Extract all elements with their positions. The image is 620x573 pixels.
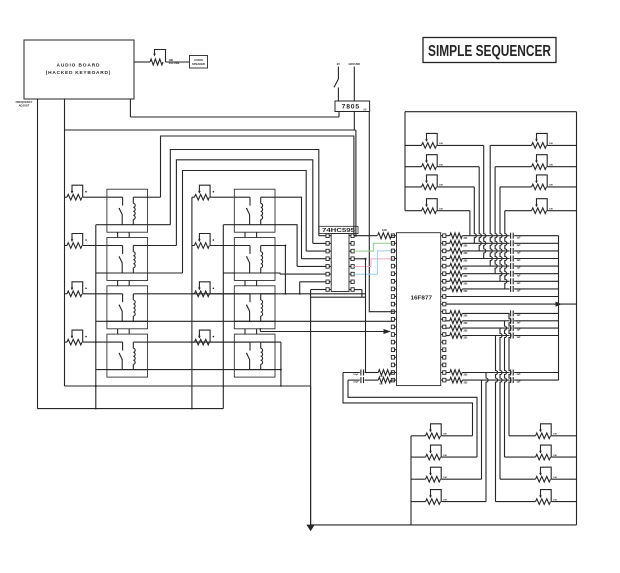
wire row3 top long line to crystal area [148, 293, 366, 295]
left grid relay K3 contact [119, 294, 123, 322]
wire audio board to 7805 (y=117) [130, 99, 339, 117]
svg-text:ADJUST: ADJUST [19, 103, 30, 107]
left grid relay K3 coil [133, 294, 135, 322]
resistor 330 low row 4 [446, 333, 468, 340]
wire row2 top left-coil to loop3 [148, 245, 177, 247]
wire out row 1 [462, 235, 558, 237]
left grid relay K1 box [107, 189, 148, 232]
svg-text:AUDIO BOARD: AUDIO BOARD [57, 62, 101, 68]
resistor 330 out row 5 [446, 263, 468, 270]
capacitor low row 1 [511, 310, 522, 317]
wire row1 bottom mid [148, 224, 171, 226]
wire blue clock [354, 251, 394, 274]
wire row1 bottom right-grid contact [223, 224, 234, 226]
left grid relay K2 contact [119, 246, 123, 274]
crystal row1 [343, 370, 394, 379]
resistor 330 out row 8 [446, 286, 468, 293]
svg-text:10K: 10K [443, 477, 447, 479]
svg-text:1uF: 1uF [517, 374, 522, 376]
left grid potentiometer row 4 [65, 330, 107, 345]
crystal loop inner [348, 380, 477, 457]
resistor 330 low row 1 [446, 311, 468, 318]
svg-text:10K: 10K [553, 455, 557, 457]
wire 7805 pin2 down [353, 112, 355, 131]
potentiometer volume 10K [150, 50, 166, 66]
wire low row 3 [462, 327, 558, 329]
capacitor bottom row 1 [511, 370, 522, 377]
wire row2 bottom left to contact rail [96, 272, 107, 274]
wire top box column 8 down to out row 8 [505, 211, 507, 289]
capacitor bottom row 2 [511, 377, 522, 384]
right grid relay K1 contact [246, 197, 250, 225]
svg-text:10K: 10K [443, 499, 447, 501]
right grid relay K1 coil [261, 197, 263, 225]
wire right contact rail x=223.3 [222, 225, 224, 409]
right grid potentiometer row 4 [192, 330, 234, 345]
left grid relay K2 wires [106, 246, 148, 274]
left grid relay K1 wires [106, 197, 148, 225]
capacitor low row 4 [511, 333, 522, 340]
wire 877 row9 [446, 296, 559, 298]
resistor 330 out row 2 [446, 241, 468, 248]
IC 16F877 body [397, 233, 441, 386]
svg-text:10K: 10K [553, 477, 557, 479]
resistor 330 low row 2 [446, 318, 468, 325]
IC 16F877 left pins [391, 234, 396, 382]
audio board box [24, 40, 134, 99]
label 10K [382, 228, 387, 232]
resistor 10K pull-up [378, 233, 392, 239]
svg-text:10K: 10K [549, 209, 553, 211]
top-left potentiometer row 4 [405, 199, 470, 214]
svg-text:22pF: 22pF [353, 382, 359, 384]
right grid relay K2 wires [234, 246, 276, 274]
top-left potentiometer row 2 [405, 155, 479, 170]
resistor 330 out row 1 [446, 233, 468, 240]
wire low row 2 [462, 320, 558, 322]
wire 595 pin8R [354, 290, 362, 298]
wire row1 bottom left to contact rail [96, 224, 107, 226]
capacitor out row 4 [511, 256, 522, 263]
wire low row1 down to bottom-right pot1 [509, 313, 511, 435]
title box SIMPLE SEQUENCER [423, 38, 556, 63]
wire pot to speaker box [166, 61, 190, 63]
top-right potentiometer row 2 [495, 155, 576, 170]
bottom-right potentiometer row 4 [496, 490, 577, 505]
IC 74HC595 label box [319, 226, 358, 234]
svg-text:10K: 10K [553, 434, 557, 436]
wire right grid pot rail x=191.9 [191, 197, 193, 408]
svg-text:1uF: 1uF [517, 245, 522, 247]
wires 74HC595 left pin stubs [280, 236, 326, 290]
right grid relay K2 contact [246, 246, 250, 274]
wire low row2 down to bottom-right pot2 [505, 321, 507, 457]
wire low row4 down to bottom-right pot4 [496, 336, 498, 502]
wire left contact rail x=95.8 [95, 225, 97, 409]
right rail x=576.5 [576, 112, 578, 525]
wire out row 3 [462, 250, 558, 252]
wire 595 pin4R [354, 258, 366, 260]
label 10K VOLUME [169, 58, 180, 65]
capacitor out row 5 [511, 263, 522, 270]
clock input arrow [260, 328, 392, 334]
IC 16F877 right pins [441, 234, 446, 382]
svg-text:10K: 10K [439, 143, 443, 145]
right grid relay K1 wires [234, 197, 276, 225]
wire 877 row10 to right rail [446, 302, 577, 307]
wire row2 bottom left-coil to loop4 [148, 272, 183, 274]
wire bottom row 2 [462, 379, 558, 381]
wire 595 GND pin to ground rail [310, 290, 312, 526]
audio speaker box [190, 56, 208, 69]
wire 7805 output right edge down [369, 112, 394, 312]
right grid relay K4 coil [261, 342, 263, 370]
wire row1 top right-coil to 595 pin4 [275, 197, 302, 259]
left grid relay chain links [118, 232, 130, 334]
right grid relay K2 box [234, 238, 275, 281]
svg-text:10K: 10K [439, 209, 443, 211]
resistor 330 bottom row 2 [446, 377, 468, 384]
svg-text:10K: 10K [549, 185, 553, 187]
svg-text:1uF: 1uF [517, 253, 522, 255]
right grid relay K4 box [234, 334, 275, 377]
right grid relay K2 coil [261, 246, 263, 274]
top-left potentiometer row 1 [405, 133, 484, 148]
right grid potentiometer row 2 [192, 234, 234, 249]
svg-text:1uF: 1uF [517, 283, 522, 285]
left grid relay K4 coil [133, 342, 135, 370]
bus y=408.6 [38, 408, 224, 410]
bottom-left potentiometer row 1 [411, 424, 473, 439]
wire resistor to 877 pin1 [392, 235, 394, 237]
label frequency adjust [16, 100, 33, 107]
wire top box column 4 down to out row 4 [484, 145, 486, 258]
capacitor out row 7 [511, 278, 522, 285]
svg-text:10K: 10K [549, 143, 553, 145]
svg-text:16F877: 16F877 [411, 296, 433, 302]
wire audio pin rail x=64.5 [64, 99, 66, 386]
top right box top edge [405, 111, 577, 113]
wire out row 6 [462, 273, 558, 275]
wire row1 top left-coil to loop1 [148, 196, 161, 198]
wire top box column 5 down to out row 5 [490, 145, 492, 266]
bus ground y=386 [65, 385, 311, 387]
right grid potentiometer row 1 [192, 185, 234, 200]
crystal loop outer [343, 373, 473, 436]
svg-text:1uF: 1uF [517, 237, 522, 239]
resistor 330 out row 6 [446, 271, 468, 278]
left grid relay K4 wires [106, 342, 148, 370]
svg-text:(HACKED KEYBOARD): (HACKED KEYBOARD) [46, 70, 111, 76]
wire 7805 pin1 down [338, 112, 340, 118]
regulator 7805 box [335, 101, 370, 112]
svg-text:AUDIO: AUDIO [194, 58, 203, 62]
bottom-left potentiometer row 3 [411, 467, 482, 482]
left grid relay K4 contact [119, 342, 123, 370]
left grid relay K3 box [107, 286, 148, 329]
top-left potentiometer row 3 [405, 175, 474, 190]
svg-text:9V: 9V [337, 62, 340, 66]
svg-text:1uF: 1uF [517, 382, 522, 384]
wire row2 bottom right-coil to 595 pin6 [275, 273, 280, 274]
wire out row 4 [462, 258, 558, 260]
wire 5V rail down right of 595 [355, 130, 357, 236]
svg-text:10K: 10K [382, 228, 387, 232]
left grid relay K2 coil [133, 246, 135, 274]
svg-text:7805: 7805 [342, 104, 360, 111]
left grid potentiometer row 2 [65, 234, 107, 249]
svg-text:5V: 5V [364, 108, 367, 111]
right grid relay K3 box [234, 286, 275, 329]
wire top box column 2 down to out row 2 [474, 187, 476, 243]
wire ground input [353, 67, 355, 102]
wire row1 bottom right-coil to 595 pin5 [275, 225, 297, 267]
wire loop 1 from 595 around top to left relay grid [161, 136, 354, 236]
wire low row 4 [462, 335, 558, 337]
capacitor out row 6 [511, 271, 522, 278]
left grid relay K4 box [107, 334, 148, 377]
bottom-left potentiometer row 4 [411, 490, 486, 505]
wire top box column 6 down to out row 6 [495, 167, 497, 274]
IC 16F877 label [411, 296, 433, 302]
svg-text:10K: 10K [443, 455, 447, 457]
wire top box column 1 down to out row 1 [469, 211, 471, 236]
wire loop 3 from 595 around top to left relay grid [176, 160, 312, 246]
wire top box column 3 down to out row 3 [479, 167, 481, 251]
svg-text:1uF: 1uF [517, 322, 522, 324]
top-right potentiometer row 1 [490, 133, 576, 148]
right grid relay K3 wires [234, 294, 276, 322]
wire row4 top to right rail [148, 341, 281, 343]
resistor 330 low row 3 [446, 325, 468, 332]
bottom-left potentiometer row 2 [411, 445, 477, 460]
svg-text:SPEAKER: SPEAKER [192, 62, 205, 66]
left grid potentiometer row 3 [65, 282, 107, 297]
wire out row 7 [462, 280, 558, 282]
wire out row 5 [462, 265, 558, 267]
top right box left rail [404, 112, 406, 211]
svg-text:1uF: 1uF [517, 291, 522, 293]
left grid potentiometer row 1 [65, 185, 107, 200]
IC 74HC595 right pins [349, 234, 354, 291]
wire low row 1 [462, 312, 558, 314]
IC 74HC595 body [331, 234, 349, 292]
svg-text:GROUND: GROUND [349, 62, 361, 66]
wire bottom row 1 [462, 372, 558, 374]
bottom right box left rail [410, 436, 412, 525]
crystal row2 [348, 377, 394, 386]
wire 9V input [337, 67, 339, 80]
label GROUND [349, 62, 361, 66]
svg-text:22pF: 22pF [353, 374, 359, 376]
svg-text:1uF: 1uF [517, 337, 522, 339]
capacitor out row 1 [511, 233, 522, 240]
svg-text:10K: 10K [549, 165, 553, 167]
wire audio board to volume pot [134, 61, 150, 63]
capacitor out row 3 [511, 248, 522, 255]
left grid relay K3 wires [106, 294, 148, 322]
wire bottom row1 down to bottom-left pot4 [486, 373, 488, 502]
bottom box bottom edge [311, 524, 577, 526]
top-right potentiometer row 3 [500, 175, 577, 190]
svg-text:1uF: 1uF [517, 315, 522, 317]
right grid relay chain links [245, 232, 257, 334]
svg-text:1uF: 1uF [517, 268, 522, 270]
svg-text:10K: 10K [553, 499, 557, 501]
svg-text:SIMPLE SEQUENCER: SIMPLE SEQUENCER [428, 43, 551, 60]
IC 74HC595 left pins [326, 234, 331, 291]
right grid relay K1 box [234, 189, 275, 232]
right grid relay K3 contact [246, 294, 250, 322]
svg-text:10K: 10K [439, 165, 443, 167]
wire out row 2 [462, 242, 558, 244]
capacitor low row 2 [511, 318, 522, 325]
wire 595 pin1R to resistor [354, 235, 377, 237]
capacitor out row 2 [511, 240, 522, 247]
bottom-right potentiometer row 1 [509, 424, 577, 439]
wire out row 8 [462, 288, 558, 290]
svg-text:1uF: 1uF [517, 330, 522, 332]
wire bottom row2 down to bottom-left pot3 [481, 380, 483, 479]
capacitor low row 3 [511, 325, 522, 332]
wire collector vertical x=558.5 [558, 236, 560, 380]
wire 595 aux net [311, 259, 366, 373]
wire 5V rail y=130 [65, 129, 356, 131]
ground symbol [306, 386, 314, 531]
left grid relay K1 contact [119, 197, 123, 225]
bottom-right potentiometer row 2 [505, 445, 577, 460]
resistor 330 out row 7 [446, 279, 468, 286]
left grid relay K2 box [107, 238, 148, 281]
resistor 330 out row 3 [446, 248, 468, 255]
resistor 330 out row 4 [446, 256, 468, 263]
svg-text:1uF: 1uF [517, 260, 522, 262]
wire frequency adjust rail x=37 [37, 99, 39, 409]
switch SW1 [334, 79, 339, 101]
resistor 330 bottom row 1 [446, 370, 468, 377]
right grid relay K4 contact [246, 342, 250, 370]
wire pink latch [354, 259, 394, 267]
right grid relay K3 coil [261, 294, 263, 322]
wire 595 pin7 to row3 top [299, 282, 301, 295]
wire right coil rail x=280.9 [280, 342, 282, 386]
wire top box column 7 down to out row 7 [500, 187, 502, 281]
wire row3 bottom long line to 16F877 [96, 320, 394, 322]
label 9V [337, 62, 340, 66]
wire loop 2 from 595 around top to left relay grid [170, 150, 318, 236]
top-right potentiometer row 4 [505, 199, 577, 214]
right grid relay K4 wires [234, 342, 276, 370]
label 5V [364, 108, 367, 111]
svg-text:10K: 10K [443, 434, 447, 436]
wire row2 top right-coil junction [275, 245, 286, 295]
svg-text:10K: 10K [439, 185, 443, 187]
left grid relay K1 coil [133, 197, 135, 225]
right grid potentiometer row 3 [192, 282, 234, 297]
wire row4 bottom to rails [96, 369, 281, 371]
bottom-right potentiometer row 3 [500, 467, 577, 482]
wire loop 4 from 595 around top to left relay grid [183, 171, 307, 274]
wire row2 bottom right-grid contact [223, 272, 234, 274]
wire green data [354, 243, 394, 251]
svg-text:1uF: 1uF [517, 275, 522, 277]
capacitor out row 8 [511, 286, 522, 293]
wire low row3 down to bottom-right pot3 [500, 328, 502, 479]
